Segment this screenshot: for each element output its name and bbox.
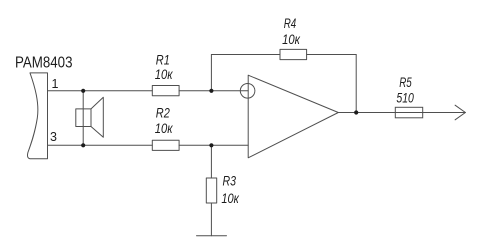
- wire R3 branch upper: [210, 145, 212, 178]
- speaker LS1 horn: [91, 97, 103, 137]
- wire speaker vertical tap: [82, 91, 84, 146]
- wire R2 to op-amp non-inverting input: [179, 144, 248, 146]
- junction dot pin1 / feedback: [209, 89, 213, 93]
- junction dot pin3 / R3: [209, 143, 213, 147]
- junction dot pin3 / speaker: [81, 143, 85, 147]
- junction dot output node: [354, 110, 358, 114]
- op-amp U1 inverting input circle: [240, 84, 255, 99]
- wire feedback vertical right to output node: [355, 55, 357, 113]
- resistor R5 body: [395, 107, 422, 118]
- op-amp U1 triangle: [248, 75, 338, 158]
- wire R1 to op-amp inverting input: [179, 90, 248, 92]
- svg-text:3: 3: [50, 130, 57, 144]
- ground: [197, 235, 227, 237]
- svg-text:R4: R4: [284, 15, 297, 31]
- connector X1 (PAM8403 partial outline): [27, 73, 47, 159]
- svg-text:R2: R2: [156, 105, 170, 121]
- svg-text:1: 1: [52, 77, 59, 91]
- svg-text:R1: R1: [156, 51, 170, 67]
- resistor R3 body (vertical): [206, 178, 216, 203]
- svg-text:10к: 10к: [155, 66, 174, 82]
- wire feedback top right segment: [307, 54, 357, 56]
- wire feedback top left segment: [211, 54, 280, 56]
- wire R3 to ground: [210, 203, 212, 236]
- svg-text:10к: 10к: [221, 190, 240, 206]
- junction dot pin1 / speaker: [81, 89, 85, 93]
- wire pin 3 from connector to R2: [48, 144, 153, 146]
- svg-text:R3: R3: [223, 172, 237, 188]
- wire feedback vertical left: [210, 55, 212, 91]
- resistor R1 body: [152, 86, 179, 96]
- output arrow head: [455, 105, 465, 120]
- resistor R2 body: [152, 140, 179, 150]
- svg-text:510: 510: [396, 89, 414, 105]
- svg-text:10к: 10к: [282, 31, 301, 47]
- svg-text:10к: 10к: [155, 120, 174, 136]
- svg-text:R5: R5: [399, 74, 412, 90]
- speaker LS1 body: [76, 109, 91, 127]
- svg-text:PAM8403: PAM8403: [15, 54, 73, 71]
- wire op-amp output: [338, 112, 465, 114]
- resistor R4 body: [280, 49, 307, 59]
- wire pin 1 from connector to R1: [48, 90, 153, 92]
